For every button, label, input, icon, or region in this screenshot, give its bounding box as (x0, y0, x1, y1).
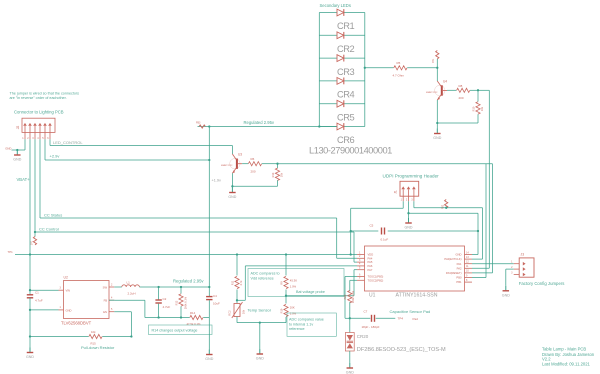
svg-text:TP4: TP4 (398, 317, 404, 321)
svg-text:PB0: PB0 (456, 276, 462, 280)
capacitor C2 (155, 287, 170, 318)
capacitor C7 (350, 310, 396, 330)
svg-text:PA1: PA1 (457, 262, 462, 266)
wire temp node to MCU (237, 266, 357, 300)
svg-text:GND: GND (26, 355, 34, 359)
junction output at riser (208, 286, 210, 288)
svg-text:4.7uF: 4.7uF (163, 305, 171, 309)
svg-text:U2: U2 (64, 276, 68, 280)
svg-text:200: 200 (251, 170, 256, 174)
ground below J2 (13, 150, 21, 162)
wire temp bottom rail (237, 317, 286, 323)
svg-text:4.7k: 4.7k (239, 280, 243, 286)
svg-text:R12: R12 (175, 300, 179, 305)
junction temp node (236, 299, 238, 301)
svg-text:R5: R5 (397, 61, 401, 65)
svg-text:R11: R11 (231, 280, 235, 285)
wire LED_CONTROL to U3 collector (231, 146, 233, 155)
svg-text:Secondary LEDs: Secondary LEDs (320, 3, 351, 8)
svg-text:ADC compares value: ADC compares value (289, 318, 324, 322)
svg-text:U1: U1 (369, 293, 376, 299)
wire U4 emitter down (436, 100, 438, 129)
wire VIN to U2 (30, 289, 59, 291)
svg-text:GND: GND (13, 158, 21, 162)
wire PA1 to J3 pin1 (472, 263, 514, 265)
svg-text:Connector to Lighting PCB: Connector to Lighting PCB (14, 110, 64, 115)
svg-text:0.1uF: 0.1uF (381, 238, 389, 242)
connector J2 (16, 118, 55, 140)
junction FB2 tap (445, 207, 447, 209)
ground below C1 (26, 348, 34, 360)
svg-text:PB1: PB1 (456, 280, 462, 284)
resistor R5 (393, 61, 408, 78)
ground below J1 (405, 218, 413, 230)
svg-text:VDD: VDD (368, 253, 374, 257)
label +2.9v (50, 154, 60, 159)
svg-text:Vdd reference: Vdd reference (251, 276, 274, 280)
svg-text:4.7 Ohm: 4.7 Ohm (393, 74, 405, 78)
svg-text:LED_CONTROL: LED_CONTROL (53, 140, 83, 145)
label CR1 (337, 21, 355, 31)
label Capacitive Sensor Pad (390, 309, 431, 314)
junction pulldown rail tap (29, 335, 31, 337)
svg-text:CC Control: CC Control (39, 226, 59, 231)
svg-text:18pF - 180pF: 18pF - 180pF (362, 325, 380, 329)
capacitor C1 (27, 291, 43, 303)
svg-text:CR2: CR2 (337, 44, 355, 54)
label Factory Config Jumpers (519, 281, 565, 286)
svg-text:CR20: CR20 (357, 334, 369, 339)
svg-text:C4: C4 (213, 294, 217, 298)
resistor R14 (187, 311, 204, 326)
diode CR5 (337, 100, 344, 107)
transistor U3 (221, 153, 242, 174)
svg-text:Last Modified: 09.11.2021: Last Modified: 09.11.2021 (542, 361, 591, 366)
svg-text:Regulated 2.95v: Regulated 2.95v (173, 279, 204, 284)
svg-text:R9: R9 (279, 281, 283, 285)
junction U3 base node (276, 163, 278, 165)
junction EN pulldown (130, 335, 132, 337)
svg-text:2.2uH: 2.2uH (128, 292, 136, 296)
svg-text:PA3(RESET): PA3(RESET) (446, 271, 462, 275)
label CR20 part number (357, 347, 446, 353)
wire GND from J2 pin1 (12, 139, 26, 150)
svg-text:PA2: PA2 (457, 266, 462, 270)
svg-text:CR3: CR3 (337, 67, 355, 77)
svg-text:C7: C7 (364, 310, 368, 314)
svg-text:Capacitive Sensor Pad: Capacitive Sensor Pad (390, 309, 431, 314)
resistor R20 (343, 280, 357, 318)
svg-text:VBAT+: VBAT+ (17, 177, 31, 182)
svg-text:CC Status: CC Status (44, 212, 62, 217)
svg-text:C5: C5 (370, 224, 374, 228)
wire +2.9v from J2 pin5 (45, 139, 209, 160)
svg-text:GND: GND (205, 357, 213, 361)
svg-text:DF2B6.8ESOO-523_(ESC)_TOS-M: DF2B6.8ESOO-523_(ESC)_TOS-M (357, 347, 446, 353)
svg-text:CR1: CR1 (337, 21, 355, 31)
junction VBAT rail at R9 (285, 253, 287, 255)
junction temp gnd (259, 321, 261, 323)
svg-text:J1: J1 (394, 190, 398, 194)
label LED_CONTROL (53, 140, 83, 145)
junction U4 emitter gnd (436, 122, 438, 124)
label +1.9v annotation (212, 179, 221, 183)
svg-text:C1: C1 (35, 291, 39, 295)
svg-text:R8: R8 (459, 84, 463, 88)
wire CR6 row (319, 126, 365, 128)
svg-text:J3: J3 (521, 252, 525, 256)
svg-text:200k 0.1%: 200k 0.1% (184, 296, 188, 309)
junction C5 left (350, 230, 352, 232)
wire R13 bottom to emitter (232, 185, 277, 187)
label Temp Sensor (248, 308, 272, 313)
svg-text:CR4: CR4 (337, 90, 355, 100)
svg-text:20K: 20K (290, 306, 295, 310)
svg-text:to internal 1.1v: to internal 1.1v (289, 322, 313, 326)
svg-text:GND: GND (502, 293, 510, 297)
junction ladder feed (318, 125, 320, 127)
wire FB node to U4 collector (436, 68, 438, 81)
title block text (542, 347, 595, 367)
junction VBAT rail at J1 drop (350, 253, 352, 255)
svg-text:FB1: FB1 (432, 58, 435, 63)
inductor L1 (122, 281, 140, 296)
svg-text:reference: reference (289, 327, 305, 331)
svg-text:SW: SW (103, 285, 108, 289)
svg-text:45.3K: 45.3K (290, 279, 297, 283)
svg-text:10uF: 10uF (213, 302, 220, 306)
label CC Control (39, 226, 59, 231)
svg-text:U3: U3 (238, 153, 242, 157)
wire U4 base to R8 (447, 89, 456, 91)
svg-text:ATTINY1614-SSN: ATTINY1614-SSN (396, 293, 438, 299)
junction U2 GND tap (29, 309, 31, 311)
junction sensor node (349, 317, 351, 319)
wire bat probe to MCU (286, 270, 357, 296)
resistor R11 (231, 255, 243, 304)
wire pulldown rail (30, 336, 131, 338)
connector J1 (394, 181, 419, 201)
svg-text:10k: 10k (280, 172, 284, 177)
wire U2 GND pin (30, 309, 59, 311)
svg-text:10k: 10k (242, 309, 246, 314)
svg-text:TLV62568DBVT: TLV62568DBVT (61, 321, 92, 326)
capacitor C5 (351, 224, 478, 242)
label VBAT+ (17, 177, 31, 182)
note ADC internal reference box (287, 313, 336, 336)
wire LED_CONTROL from J2 pin6 (50, 139, 232, 145)
note ADC Vdd reference box (248, 269, 344, 297)
thermistor RT1 (228, 302, 246, 318)
svg-text:C2: C2 (163, 297, 167, 301)
ground below C4 (205, 350, 213, 362)
svg-text:GND: GND (256, 357, 264, 361)
junction ladder R5 tap (364, 67, 366, 69)
svg-text:Factory Config Jumpers: Factory Config Jumpers (519, 281, 565, 286)
jumper JP1 (31, 232, 37, 245)
svg-text:4.7uF: 4.7uF (35, 299, 43, 303)
resistor R9 (279, 255, 297, 304)
buck regulator U2 (59, 276, 115, 326)
svg-text:R10: R10 (472, 106, 476, 111)
svg-text:GND: GND (405, 226, 413, 230)
microcontroller U1 (357, 246, 472, 299)
junction bat probe node (285, 295, 287, 297)
wire ladder to R5 (365, 67, 394, 69)
wire CR1 row (319, 12, 365, 14)
junction U3 emitter gnd (231, 185, 233, 187)
wire PB3 to sensor (345, 277, 357, 319)
wire VBAT+ from J2 pin2 (29, 139, 31, 254)
wire temp gnd drop (259, 323, 261, 349)
wire FB divider (109, 300, 209, 349)
junction VBAT rail at R11 (236, 253, 238, 255)
wire C1 to ground rail (29, 298, 31, 348)
wire output rail 2.95v (139, 286, 209, 288)
label L130 part number (309, 145, 392, 155)
label Secondary LEDs (320, 3, 351, 8)
svg-text:R13: R13 (271, 172, 275, 177)
wire VBAT down to C1 (29, 255, 31, 295)
svg-text:1.0%: 1.0% (290, 312, 297, 316)
ground below U3 (228, 188, 236, 200)
svg-text:R19: R19 (279, 308, 283, 313)
wire U4 base net riser (472, 90, 489, 268)
svg-text:EN: EN (103, 310, 107, 314)
svg-text:PA6: PA6 (368, 264, 373, 268)
junction divider at R12 (180, 316, 182, 318)
junction C5 right (477, 230, 479, 232)
resistor R15 (89, 330, 102, 346)
ground below thermistor (256, 349, 264, 361)
svg-text:GND: GND (5, 146, 11, 150)
note R14 changes output voltage (149, 325, 213, 335)
svg-text:MMBT2222: MMBT2222 (221, 165, 233, 167)
svg-text:+1.9v: +1.9v (212, 179, 221, 183)
wire CC Status from J2 pin4 (40, 139, 357, 258)
junction VIN tap (29, 289, 31, 291)
svg-text:L130-2790001400001: L130-2790001400001 (309, 145, 392, 155)
resistor R19 (279, 304, 296, 322)
wire J3 pin2 GND (506, 269, 514, 286)
svg-text:1.0%: 1.0% (290, 285, 297, 289)
svg-text:GND: GND (66, 308, 72, 312)
label Pull-down Resistor (81, 345, 115, 350)
svg-text:GND: GND (433, 136, 441, 140)
svg-text:Table Lamp - Main PCB: Table Lamp - Main PCB (542, 347, 586, 352)
label UDPI Programming Header (383, 173, 440, 178)
svg-text:JP1: JP1 (31, 240, 34, 245)
svg-text:Pad: Pad (413, 317, 419, 321)
junction divider at C2 (157, 316, 159, 318)
wire PB0 branch (472, 164, 486, 278)
wire CR5 row (319, 103, 365, 105)
diode CR6 (337, 123, 344, 130)
junction feed at riser top (208, 125, 210, 127)
ferrite bead FB3 (196, 122, 205, 129)
label CR6 (337, 135, 355, 145)
resistor R12 (175, 287, 188, 318)
svg-text:J2: J2 (16, 126, 20, 130)
wire CR3 row (319, 57, 365, 59)
svg-text:100k 1.0%: 100k 1.0% (351, 290, 355, 303)
svg-text:R14: R14 (190, 311, 196, 315)
wire GND to MCU (409, 213, 479, 254)
wire R5 to FB node (407, 67, 437, 69)
svg-text:CR5: CR5 (337, 112, 355, 122)
label Regulated 2.95v bottom (173, 279, 204, 284)
wire U3 emitter down (231, 173, 233, 187)
capacitor C4 (206, 287, 220, 318)
svg-text:ADC compares to: ADC compares to (251, 272, 280, 276)
svg-text:GND: GND (228, 195, 236, 199)
svg-text:10k: 10k (91, 330, 96, 334)
wire SW to L1 (114, 286, 122, 288)
wire ladder right rail (364, 13, 366, 127)
junction VBAT rail at J2 column (29, 253, 31, 255)
wire J1 pin2 GND (408, 201, 410, 218)
wire ladder left rail (318, 13, 320, 127)
junction FB1 node (436, 67, 438, 69)
label CR2 (337, 44, 355, 54)
label CR20 (357, 334, 369, 339)
svg-text:CR6: CR6 (337, 135, 355, 145)
ground below U4 (433, 129, 441, 141)
svg-text:are "in reverse" order of each: are "in reverse" order of eachother. (10, 96, 67, 100)
wire J1 pin1 VDD (351, 201, 404, 254)
wire CR2 row (319, 34, 365, 36)
label CC Status (44, 212, 62, 217)
wire R8 to base node (470, 89, 478, 91)
svg-text:Bat voltage probe: Bat voltage probe (296, 290, 325, 294)
wire EN (114, 312, 131, 337)
label TP1 (8, 250, 14, 254)
resistor R6 (248, 157, 261, 174)
svg-text:UDPI Programming Header: UDPI Programming Header (383, 173, 440, 178)
svg-text:PA4: PA4 (368, 256, 373, 260)
diode CR20 TVS (345, 318, 354, 363)
resistor R8 (457, 84, 470, 100)
junction output at R12 (180, 286, 182, 288)
label Regulated 2.95v top (244, 120, 275, 125)
svg-text:L1: L1 (127, 281, 131, 285)
svg-text:PA0(EXTCLK): PA0(EXTCLK) (444, 257, 461, 261)
resistor R10 (472, 90, 485, 123)
ferrite bead FB1 (432, 51, 439, 68)
svg-text:TOSC2(PB2): TOSC2(PB2) (368, 278, 384, 282)
label CR3 (337, 67, 355, 77)
svg-text:PA5: PA5 (368, 260, 373, 264)
diode CR4 (337, 78, 344, 85)
svg-text:R14 changes output voltage: R14 changes output voltage (152, 329, 198, 333)
svg-text:FB3: FB3 (196, 122, 201, 125)
svg-text:200: 200 (459, 96, 464, 100)
junction U4 base node (477, 89, 479, 91)
ground below J3 (502, 286, 510, 298)
label CR4 (337, 90, 355, 100)
diode CR3 (337, 55, 344, 62)
junction output at C2 (157, 286, 159, 288)
transistor U4 (426, 80, 447, 101)
wire R10 bottom to emitter (437, 122, 478, 124)
label CR5 (337, 112, 355, 122)
test pad TP4 (398, 317, 419, 321)
wire U3 base net to MCU (278, 164, 493, 273)
svg-text:47.5k 0.1%: 47.5k 0.1% (187, 322, 202, 326)
svg-text:RC2: RC2 (228, 310, 232, 316)
wire VBAT rail (15, 254, 357, 256)
wire J1 pin3 UPDI (414, 201, 483, 259)
wire U3 base to R6 (242, 163, 248, 165)
svg-text:R20: R20 (343, 294, 347, 299)
resistor R13 (271, 164, 284, 187)
wire 2.95v riser (208, 127, 210, 288)
svg-text:GND: GND (346, 371, 354, 374)
svg-text:TP1: TP1 (8, 250, 14, 254)
svg-text:U4: U4 (443, 80, 447, 84)
wire CC Control from J2 pin3 (35, 139, 357, 262)
note jumper wiring text (10, 92, 80, 101)
svg-text:GND: GND (456, 253, 462, 257)
junction J1 GND node (407, 212, 409, 214)
wire R6 to base node (262, 163, 278, 165)
junction GND at J2 (16, 149, 18, 151)
svg-text:Pull-down Resistor: Pull-down Resistor (81, 345, 115, 350)
svg-text:R6: R6 (251, 157, 255, 161)
wire CR4 row (319, 80, 365, 82)
diode CR2 (337, 32, 344, 39)
svg-text:PA7: PA7 (368, 268, 373, 272)
svg-text:FB: FB (104, 299, 108, 303)
svg-text:The jumper is wired so that th: The jumper is wired so that the connecto… (10, 92, 80, 96)
connector J3 (511, 252, 534, 277)
svg-text:10k: 10k (480, 106, 484, 111)
junction riser at +2.9v (208, 159, 210, 161)
wire 2.95v top feed (198, 126, 338, 128)
svg-text:Regulated 2.95v: Regulated 2.95v (244, 120, 275, 125)
svg-text:+2.9v: +2.9v (50, 154, 60, 159)
svg-text:VIN: VIN (66, 289, 71, 293)
svg-text:Temp Sensor: Temp Sensor (248, 308, 272, 313)
diode CR1 (337, 9, 344, 16)
junction CC Control jumper tap (34, 231, 36, 233)
svg-text:MMBT2222: MMBT2222 (426, 92, 438, 94)
label Connector to Lighting PCB (14, 110, 64, 115)
label GND flag (5, 146, 11, 150)
ferrite bead FB2 (442, 200, 448, 210)
svg-text:FB2: FB2 (442, 204, 445, 209)
ground below CR20 (346, 363, 354, 374)
svg-text:TOSC1(PB3): TOSC1(PB3) (368, 275, 384, 279)
